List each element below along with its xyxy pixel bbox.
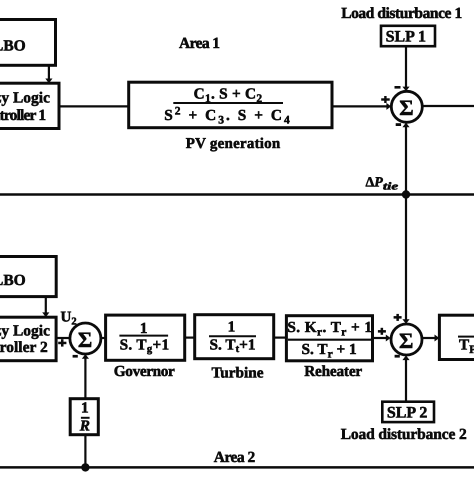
wire Fuzzy1 to PV block [59,105,129,107]
sign plus at S2b left input [378,328,386,335]
block SLP 1 [381,26,435,46]
svg-text:Load disturbance 1: Load disturbance 1 [341,5,462,22]
wire PV to summer S1 arrow [332,103,391,110]
wire Reheater to summer S2b arrow [373,335,391,342]
svg-text:S. Kr. Tr + 1: S. Kr. Tr + 1 [287,319,372,339]
wire SLBO1 to Fuzzy1 arrow [45,65,52,83]
svg-text:S. Tt+1: S. Tt+1 [210,336,256,355]
block PV generation transfer function [129,82,332,128]
summer S2b [391,324,422,355]
sign plus at S2b top input [394,314,402,321]
wire SLBO2 to Fuzzy2 arrow [42,297,49,318]
svg-text:Load disturbance 2: Load disturbance 2 [341,426,467,443]
svg-text:Reheater: Reheater [304,363,362,380]
bottom feedback wire [0,466,474,469]
svg-text:S. Tg+1: S. Tg+1 [120,336,170,355]
sign minus at S1 top input [395,86,401,89]
svg-text:Governor: Governor [114,363,175,380]
svg-text:1: 1 [140,320,148,337]
svg-text:Σ: Σ [78,327,92,352]
wire Governor to Turbine [185,337,195,339]
block Reheater [286,316,372,361]
summer S1 [391,91,422,122]
svg-text:PV generation: PV generation [186,136,281,152]
block Turbine [195,315,274,359]
block 1/R [70,399,98,435]
svg-text:Fuzzy Logic: Fuzzy Logic [0,323,50,340]
sign plus at S1 left input [381,96,390,103]
svg-text:Turbine: Turbine [212,365,264,382]
wire tie junction up to S1 arrow [402,123,409,195]
block SLBO area1 [0,20,56,66]
svg-text:Controller 2: Controller 2 [0,339,48,356]
wire S2a to Governor [101,337,106,339]
wire S2b to power system block arrow [422,335,439,342]
block SLP 2 [382,402,434,422]
svg-text:S2 + C3. S + C4: S2 + C3. S + C4 [164,105,292,126]
svg-text:LBO: LBO [0,38,26,55]
svg-text:1: 1 [228,319,236,336]
svg-text:Area 1: Area 1 [179,35,220,52]
svg-text:Σ: Σ [399,328,413,353]
wire S2a up-arrow from 1/R [82,354,89,399]
node bottom junction [81,463,89,471]
summer S2a [70,323,101,354]
block Fuzzy Logic Controller 2 [0,317,56,361]
svg-text:Fuzzy Logic: Fuzzy Logic [0,90,50,107]
svg-text:SLP 2: SLP 2 [387,405,427,422]
block Power system transfer function cut at right edge [439,315,474,359]
block Fuzzy Logic Controller 1 [0,83,59,128]
wire SLP1 to summer S1 arrow [402,46,409,91]
tie-line horizontal wire [0,193,474,195]
svg-text:1: 1 [81,400,89,417]
wire Turbine to Reheater [274,337,287,339]
wire tie junction down to summer S2b arrow [402,195,409,324]
block Governor [106,315,185,360]
svg-text:Σ: Σ [399,95,413,120]
wire Fuzzy2 to summer S2a [56,337,70,339]
svg-text:LBO: LBO [0,272,26,289]
svg-text:R: R [79,418,90,435]
svg-text:Area 2: Area 2 [214,449,256,466]
sign minus at S2a bottom input [73,355,78,358]
sign plus at S2a left input [58,339,66,346]
svg-text:SLP 1: SLP 1 [386,29,426,46]
node tie junction [402,190,410,198]
sign minus at S1 bottom input [396,123,401,126]
wire SLP2 up to S2b arrow [402,355,409,401]
svg-text:Controller 1: Controller 1 [0,107,46,124]
wire 1/R down to bottom junction [84,435,86,468]
block SLBO area2 [0,257,56,297]
wire S1 output to right edge [422,105,474,107]
sign minus at S2b bottom input [395,355,400,358]
